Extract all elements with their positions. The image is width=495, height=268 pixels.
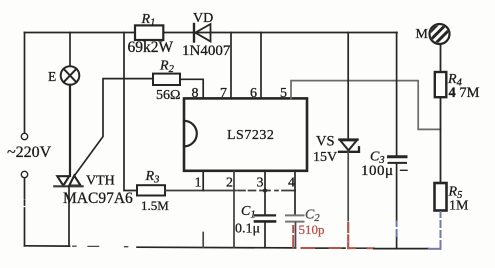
wire zener to bottom black [347, 152, 349, 221]
resistor R3 [137, 185, 165, 195]
svg-text:100μ: 100μ [361, 163, 394, 179]
terminal upper [21, 133, 27, 139]
wire R2 to pin 8 [180, 79, 203, 98]
wire pin5 to R4 bottom [291, 81, 441, 130]
wire C3 to rail [396, 164, 398, 221]
svg-text:69k2W: 69k2W [128, 39, 174, 56]
svg-text:VTH: VTH [86, 174, 115, 189]
svg-text:4: 4 [288, 176, 295, 191]
wire C1 to rail [264, 223, 266, 248]
svg-text:2: 2 [226, 176, 233, 191]
capacitor C3 electrolytic [389, 157, 408, 171]
svg-text:VD: VD [193, 11, 213, 26]
svg-text:1.5M: 1.5M [141, 198, 169, 213]
wire vertical rail-to-R3 [124, 33, 137, 191]
resistor R2 [153, 74, 180, 85]
wire bottom rail right [374, 248, 429, 250]
svg-text:0.1μ: 0.1μ [235, 222, 260, 237]
triac VTH [54, 176, 82, 187]
wire bottom rail dashed gap [73, 245, 128, 248]
svg-text:1M: 1M [449, 199, 469, 214]
wire triac to bottom rail [68, 186, 70, 246]
svg-text:6: 6 [250, 86, 257, 101]
touch plate M [420, 3, 460, 60]
wire zener column from rail [347, 33, 349, 140]
resistor R1 [135, 25, 163, 40]
resistor R5 [435, 183, 447, 211]
wire C2 to rail [295, 223, 297, 249]
svg-text:1N4007: 1N4007 [182, 43, 231, 59]
wire left vertical lower [24, 178, 26, 246]
svg-text:3: 3 [257, 176, 264, 191]
svg-text:MAC97A6: MAC97A6 [63, 190, 133, 207]
svg-text:4 7M: 4 7M [449, 85, 480, 101]
wire bottom rail blue dash corner [429, 248, 441, 250]
wire R3 to pin2 [165, 190, 236, 192]
wire M to R4 [440, 44, 442, 72]
wire bottom rail red dashes [302, 247, 374, 249]
triac gate wire [75, 79, 153, 175]
svg-text:15V: 15V [313, 150, 337, 165]
wire pin1 stub at rail [202, 233, 204, 248]
wire zener red dashed [347, 223, 349, 248]
wire bottom rail left [25, 245, 70, 247]
wire R5 blue dashed to rail [440, 212, 442, 249]
IC notch [184, 121, 197, 147]
diode VD [194, 24, 211, 42]
capacitor C2 [286, 215, 304, 221]
wire pin6 to rail [260, 33, 262, 99]
svg-text:7: 7 [220, 86, 227, 101]
wire C3 bottom [396, 238, 398, 249]
wire pin4 to C2 [294, 171, 296, 215]
wire C3 column from rail corner [396, 33, 398, 157]
wire C3 blue dashed section [396, 222, 398, 237]
svg-text:510p: 510p [299, 222, 325, 237]
svg-text:1: 1 [195, 176, 202, 191]
terminal lower [21, 171, 27, 177]
IC U1 LS7232 box [184, 98, 307, 170]
lamp wire from rail [69, 33, 71, 67]
svg-text:56Ω: 56Ω [156, 88, 180, 103]
wire dashed pins2-4 [238, 190, 295, 192]
wire top rail [25, 32, 398, 34]
svg-text:8: 8 [192, 86, 199, 101]
svg-text:LS7232: LS7232 [227, 128, 274, 143]
wire R4 to R5 [440, 97, 442, 183]
svg-text:5: 5 [280, 86, 287, 101]
wire C2 red dashed drop [292, 226, 294, 248]
svg-text:VS: VS [316, 134, 335, 150]
wire pin1 to R3 line [202, 171, 204, 191]
svg-text:~220V: ~220V [7, 144, 52, 161]
wire bottom rail red-black mixed segment [314, 247, 367, 249]
wire pin2 to rail [233, 171, 235, 248]
wire pin7 to rail [230, 33, 232, 99]
wire left vertical upper [24, 33, 26, 134]
junction node pin3 [263, 189, 267, 193]
lamp E [61, 66, 80, 85]
svg-text:E: E [48, 69, 56, 84]
zener diode VS [339, 140, 359, 152]
wire bottom rail center [137, 246, 296, 249]
svg-text:M: M [416, 27, 429, 42]
resistor R4 [435, 72, 447, 97]
wire pin3 to C1 [264, 171, 266, 215]
capacitor C1 [255, 215, 275, 221]
wire lamp to triac [69, 85, 71, 176]
